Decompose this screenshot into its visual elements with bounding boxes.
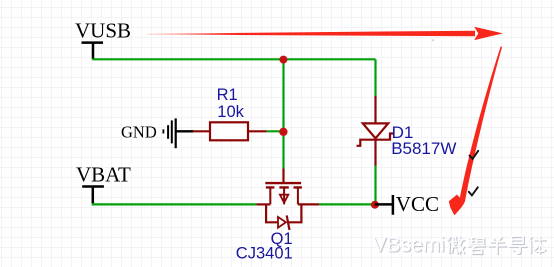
gate pin from gate branch — [282, 169, 284, 184]
svg-text:R1: R1 — [217, 86, 238, 104]
power port GND — [121, 118, 194, 148]
checkmark 1 — [470, 151, 479, 159]
gate bar — [265, 182, 301, 184]
watermark VBsemi微碧半导体 — [373, 234, 547, 258]
wire: VUSB top rail — [92, 58, 375, 60]
svg-text:10k: 10k — [217, 103, 244, 121]
source pin — [257, 203, 271, 205]
bulk arrow — [280, 195, 288, 203]
junction: top rail / gate branch — [279, 56, 287, 64]
svg-text:VUSB: VUSB — [75, 19, 131, 43]
body loop with body diode — [266, 204, 278, 222]
svg-text:CJ3401: CJ3401 — [236, 245, 293, 263]
wire: Q1 drain to VCC node — [319, 203, 375, 205]
channel dashes — [266, 186, 302, 188]
power port VUSB — [75, 19, 131, 60]
diode D1 (Schottky) — [357, 96, 394, 166]
resistor R1 — [193, 122, 267, 140]
power port VCC — [375, 192, 439, 216]
power port VBAT — [76, 163, 131, 204]
wire: diode branch top segment — [374, 59, 376, 96]
svg-text:GND: GND — [121, 122, 157, 141]
drain pin — [298, 203, 319, 205]
junction: R1 output on gate branch — [279, 128, 287, 136]
svg-text:VBsemi: VBsemi — [373, 234, 445, 257]
annotation arrow (horizontal, red) — [147, 27, 503, 40]
junction: VCC node — [371, 201, 379, 209]
checkmark 2 — [469, 187, 478, 195]
wire: VBAT to Q1 source — [92, 203, 257, 205]
wire: gate branch vertical — [282, 59, 284, 169]
svg-text:VBAT: VBAT — [76, 163, 131, 187]
svg-text:B5817W: B5817W — [391, 139, 456, 158]
channel verticals — [270, 187, 298, 204]
annotation arrow (diagonal, red) — [449, 46, 502, 215]
speck — [432, 39, 434, 41]
wire: R1 to gate branch — [267, 130, 283, 132]
wire: diode branch bottom segment — [374, 166, 376, 205]
transistor Q1 (P-MOSFET) — [257, 169, 320, 231]
svg-text:VCC: VCC — [396, 192, 439, 216]
